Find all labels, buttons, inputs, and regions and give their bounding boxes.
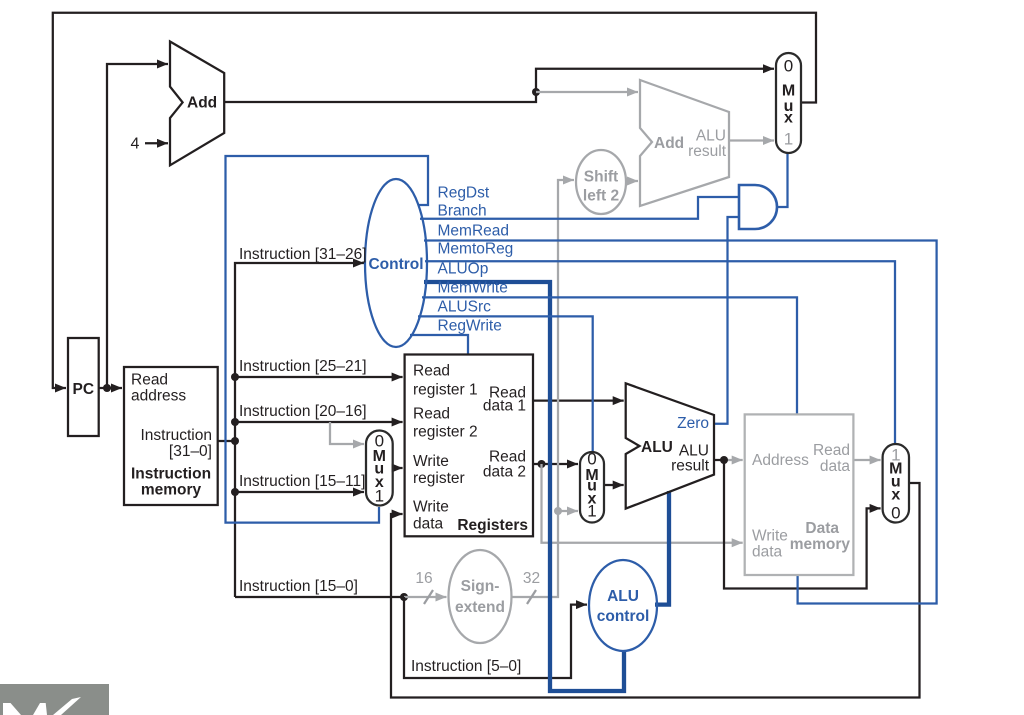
wire MemRead to Data memory bbox=[424, 241, 937, 604]
svg-text:Branch: Branch bbox=[438, 203, 487, 220]
svg-text:Add: Add bbox=[187, 95, 217, 112]
wire ALU control output to ALU (thick) bbox=[655, 491, 669, 605]
svg-text:16: 16 bbox=[415, 570, 432, 587]
svg-text:0: 0 bbox=[891, 504, 900, 523]
wire ALUOp to ALU control (thick) bbox=[424, 282, 624, 691]
svg-text:Read: Read bbox=[413, 363, 450, 380]
svg-text:RegDst: RegDst bbox=[438, 185, 490, 202]
svg-text:left 2: left 2 bbox=[583, 188, 619, 205]
svg-text:Instruction [25–21]: Instruction [25–21] bbox=[239, 358, 367, 375]
wire AND gate output to mux4 select bbox=[777, 152, 788, 207]
mux M1 write register select bbox=[366, 431, 393, 506]
svg-text:ALU: ALU bbox=[696, 128, 726, 145]
svg-text:Registers: Registers bbox=[457, 517, 528, 534]
node PC output junction bbox=[103, 384, 111, 392]
wire Instruction 15-11 to mux1 input 1 bbox=[235, 491, 364, 493]
svg-text:PC: PC bbox=[73, 381, 95, 398]
wire Instruction 25-21 to Read register 1 bbox=[235, 376, 403, 378]
svg-text:Instruction [15–11]: Instruction [15–11] bbox=[239, 473, 365, 490]
mux M4 PCSrc bbox=[776, 53, 801, 153]
svg-text:Sign-: Sign- bbox=[461, 578, 500, 595]
register PC bbox=[68, 338, 99, 436]
svg-text:Write: Write bbox=[413, 499, 449, 516]
svg-text:1: 1 bbox=[587, 502, 596, 521]
svg-text:memory: memory bbox=[141, 482, 202, 499]
svg-text:control: control bbox=[597, 608, 650, 625]
svg-text:MemtoReg: MemtoReg bbox=[438, 241, 514, 258]
wire instruction bus vertical bbox=[235, 263, 364, 597]
svg-text:Instruction [5–0]: Instruction [5–0] bbox=[411, 658, 521, 675]
wire Sign-extend output up to Shift left 2 bbox=[512, 180, 575, 597]
logo Morgan Kaufmann MK bbox=[0, 684, 109, 715]
svg-text:0: 0 bbox=[784, 57, 793, 76]
wire Data memory Read data to mux3 input 1 bbox=[853, 459, 880, 461]
memory Data memory (gray) bbox=[745, 414, 854, 575]
adder Add (PC+4) bbox=[170, 42, 224, 166]
node tap 15-0 bbox=[400, 593, 408, 601]
wire MemWrite to Data memory bbox=[422, 297, 797, 415]
svg-text:ALU: ALU bbox=[607, 588, 639, 605]
adder Add2 branch target (gray) bbox=[640, 80, 729, 206]
bus slash 16 bbox=[424, 590, 433, 604]
svg-text:4: 4 bbox=[131, 136, 140, 153]
svg-text:memory: memory bbox=[790, 536, 851, 553]
wire Instruction 5-0 to ALU control bbox=[404, 597, 587, 678]
wire Instruction memory output bbox=[218, 440, 235, 442]
wire to Sign-extend (gray) bbox=[404, 596, 447, 598]
svg-text:Instruction: Instruction bbox=[140, 427, 212, 444]
svg-text:M: M bbox=[782, 83, 795, 100]
wire Add result branch to Add2 (gray) bbox=[536, 91, 638, 93]
svg-text:Read: Read bbox=[813, 442, 850, 459]
wire Instruction 20-16 branch to mux1 input 0 (gray) bbox=[330, 422, 364, 444]
node tap 25-21 bbox=[231, 373, 239, 381]
svg-text:Instruction [15–0]: Instruction [15–0] bbox=[239, 578, 358, 595]
wire Sign-extend branch to mux2 input 1 bbox=[558, 510, 578, 512]
svg-text:data: data bbox=[752, 544, 783, 561]
wire mux1 output to Write register bbox=[393, 467, 403, 469]
svg-text:MemRead: MemRead bbox=[438, 223, 510, 240]
svg-text:ALU: ALU bbox=[641, 439, 673, 456]
svg-text:ALUSrc: ALUSrc bbox=[438, 299, 492, 316]
svg-text:Read: Read bbox=[413, 406, 450, 423]
mux M3 MemtoReg bbox=[883, 444, 909, 523]
wire ALU result to Data memory Address (gray) bbox=[724, 459, 743, 461]
svg-text:address: address bbox=[131, 388, 186, 405]
svg-text:Instruction [31–26]: Instruction [31–26] bbox=[239, 246, 367, 263]
svg-text:0: 0 bbox=[587, 450, 596, 469]
wire Instruction 20-16 to Read register 2 bbox=[235, 421, 403, 423]
node read data 2 junction bbox=[538, 460, 546, 468]
control unit Control (ellipse) bbox=[365, 179, 427, 347]
memory Registers bbox=[405, 355, 533, 537]
node ALU result junction bbox=[720, 456, 728, 464]
svg-text:result: result bbox=[688, 143, 727, 160]
svg-text:Control: Control bbox=[368, 256, 423, 273]
node Add result branch junction bbox=[532, 88, 540, 96]
wire RegDst to mux1 select bbox=[226, 156, 429, 523]
mux M2 ALUSrc bbox=[580, 450, 604, 523]
and gate PCSrc bbox=[739, 185, 777, 229]
wire Read data 1 to ALU bbox=[533, 399, 624, 401]
wire mux3 output to Write data of Registers (around bottom) bbox=[391, 483, 920, 698]
svg-text:Instruction [20–16]: Instruction [20–16] bbox=[239, 403, 367, 420]
svg-text:register 1: register 1 bbox=[413, 382, 478, 399]
wire mux2 output to ALU bbox=[604, 484, 624, 486]
svg-text:Zero: Zero bbox=[677, 415, 709, 432]
ellipse Shift left 2 bbox=[576, 150, 626, 214]
wire PC output up to Add input bbox=[107, 64, 168, 388]
wire Read data 2 to Data memory Write data (gray) bbox=[542, 464, 743, 543]
svg-text:x: x bbox=[891, 487, 900, 504]
svg-text:x: x bbox=[784, 110, 793, 127]
wire ALUSrc to mux2 select bbox=[418, 316, 593, 453]
svg-text:Write: Write bbox=[752, 528, 788, 545]
node tap 20-16 bbox=[231, 418, 239, 426]
control unit ALU control (ellipse) bbox=[589, 560, 657, 651]
svg-text:data 1: data 1 bbox=[483, 398, 526, 415]
wire Add2 ALU result to mux4 input 1 bbox=[729, 139, 774, 141]
wire constant 4 to Add bbox=[145, 142, 168, 144]
svg-text:Instruction: Instruction bbox=[131, 466, 211, 483]
svg-text:Add: Add bbox=[654, 135, 684, 152]
wire Shift left 2 output to Add2 bbox=[626, 180, 638, 182]
svg-text:register: register bbox=[413, 470, 465, 487]
svg-text:[31–0]: [31–0] bbox=[169, 443, 212, 460]
svg-text:register 2: register 2 bbox=[413, 424, 478, 441]
svg-text:MemWrite: MemWrite bbox=[438, 280, 508, 297]
svg-text:Data: Data bbox=[805, 520, 839, 537]
wire RegWrite to Registers bbox=[410, 335, 468, 356]
wire Read data 2 to mux2 input 0 bbox=[533, 463, 578, 465]
alu ALU main bbox=[626, 383, 714, 508]
svg-text:32: 32 bbox=[523, 570, 540, 587]
svg-text:Shift: Shift bbox=[584, 169, 618, 186]
node instruction bus tap 31-26 bbox=[231, 437, 239, 445]
svg-text:data: data bbox=[820, 458, 851, 475]
wire Branch to AND gate bbox=[420, 197, 738, 219]
svg-text:ALUOp: ALUOp bbox=[438, 261, 489, 278]
svg-text:Read: Read bbox=[131, 372, 168, 389]
svg-text:1: 1 bbox=[375, 487, 384, 506]
svg-text:RegWrite: RegWrite bbox=[438, 318, 502, 335]
node sign-extend branch junction bbox=[554, 507, 562, 515]
wire MemtoReg to mux3 select bbox=[425, 261, 895, 445]
svg-text:data: data bbox=[413, 516, 444, 533]
wire Instruction 15-0 horizontal bbox=[235, 596, 404, 598]
svg-text:Write: Write bbox=[413, 453, 449, 470]
wire mux4 output to PC input (feedback around top) bbox=[53, 13, 816, 388]
bus slash 32 bbox=[527, 590, 536, 604]
node tap 15-11 bbox=[231, 488, 239, 496]
svg-text:1: 1 bbox=[784, 130, 793, 149]
memory Instruction memory bbox=[124, 367, 218, 505]
wire Add result to mux4 input 0 bbox=[224, 69, 774, 102]
wire ALU result to mux3 input 0 bbox=[724, 460, 881, 589]
ellipse Sign-extend bbox=[449, 550, 512, 643]
wire ALU result out bbox=[714, 459, 724, 461]
svg-text:data 2: data 2 bbox=[483, 464, 526, 481]
wire PC output to Instruction memory bbox=[99, 387, 122, 389]
svg-text:extend: extend bbox=[455, 599, 505, 616]
wire Zero to AND gate bbox=[713, 217, 738, 424]
svg-text:result: result bbox=[671, 458, 710, 475]
svg-text:Address: Address bbox=[752, 452, 809, 469]
